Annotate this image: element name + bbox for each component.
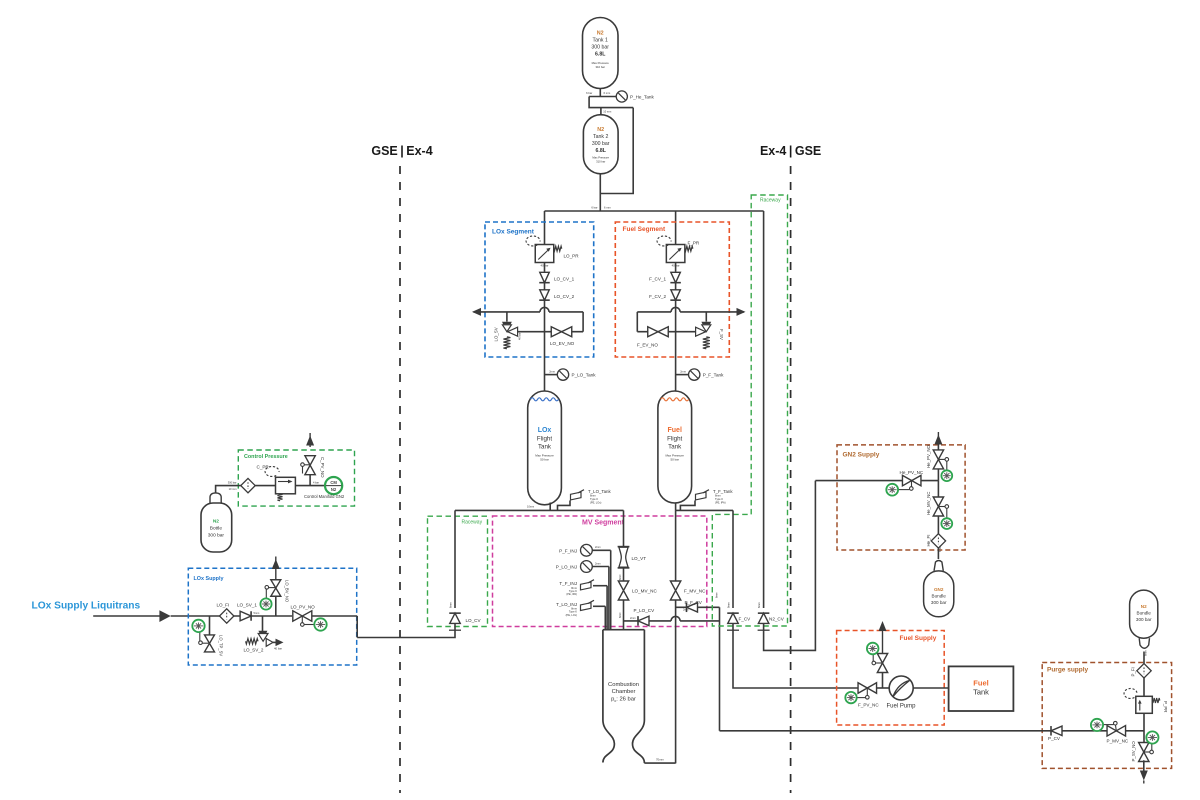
instrument ring He_PV_NO	[941, 470, 952, 481]
wire LOx tank outlet	[549, 503, 551, 511]
svg-text:LO_SV_1: LO_SV_1	[237, 603, 257, 608]
svg-text:F_CV: F_CV	[739, 617, 752, 622]
wire P_SV_NO to vent	[1143, 760, 1145, 772]
svg-text:LO_CV: LO_CV	[466, 618, 482, 623]
thermocouple T_LO_INJ	[593, 605, 605, 607]
svg-text:He_PV_NO: He_PV_NO	[926, 444, 931, 468]
svg-text:Raceway: Raceway	[462, 520, 483, 526]
svg-text:6mm: 6mm	[715, 592, 718, 598]
svg-text:P_MV_NC: P_MV_NC	[1107, 739, 1129, 744]
instrument ring P_MV_NC	[1091, 719, 1103, 731]
instrument ring drain valve	[192, 620, 204, 632]
svg-text:2mm: 2mm	[595, 562, 601, 565]
wire Fuel tank outlet	[675, 503, 677, 510]
check valve P_CV	[1051, 726, 1062, 736]
wire LO_CV riser bottom	[357, 624, 455, 638]
supply inlet arrow	[159, 610, 170, 622]
svg-text:300 bar: 300 bar	[1136, 617, 1152, 622]
instrument ring He_PV_NC	[886, 484, 898, 496]
svg-text:Type K: Type K	[715, 497, 723, 501]
N2 Tank 1	[583, 18, 619, 89]
svg-text:pc: 26 bar: pc: 26 bar	[611, 696, 636, 702]
LOx vent header wire	[474, 311, 541, 313]
vent arrow LOx left	[472, 308, 481, 316]
svg-text:6 mm: 6 mm	[604, 91, 611, 95]
svg-text:Tank: Tank	[538, 444, 552, 451]
svg-text:Flight: Flight	[537, 435, 552, 442]
wire vent down-leg right	[582, 312, 584, 332]
wire pump to fuel tank	[913, 687, 948, 689]
LO_PV_NO actuator	[301, 616, 303, 623]
wire LO to tank top	[544, 370, 546, 391]
GSE/Ex-4 boundary line left	[399, 166, 401, 793]
svg-text:P_LO_INJ: P_LO_INJ	[556, 565, 577, 570]
check valve F_CV_1	[671, 272, 681, 282]
pressure gauge P_He_Tank	[616, 91, 627, 102]
svg-text:F_PR: F_PR	[688, 241, 700, 246]
svg-text:P_PR: P_PR	[1163, 701, 1168, 712]
valve F_PV_NC	[858, 683, 877, 694]
valve F_EV_NO	[648, 327, 669, 337]
Control Pressure box	[238, 450, 354, 506]
filter control	[241, 478, 255, 492]
wire He to filter	[937, 516, 939, 534]
svg-text:LOx Supply Liquitrans: LOx Supply Liquitrans	[32, 601, 141, 612]
wire manifold down-jog	[589, 97, 633, 108]
LOx supply outlet wire	[312, 615, 357, 617]
wire LO_CV riser top	[454, 510, 456, 608]
svg-text:6mm: 6mm	[757, 602, 761, 608]
GN2 Supply box	[837, 445, 965, 550]
pressure gauge P_F_INJ	[592, 549, 611, 551]
svg-text:T_LO_INJ: T_LO_INJ	[556, 602, 577, 607]
wire fuel fill drop	[732, 510, 734, 608]
wire LOx branch drop	[544, 211, 546, 245]
svg-text:8mm: 8mm	[590, 494, 596, 498]
instrument ring He_MV_NC	[941, 518, 952, 529]
valve He_MV_NC	[933, 497, 943, 516]
LOx Segment box	[485, 222, 594, 357]
svg-text:(PE, IPA): (PE, IPA)	[715, 500, 726, 504]
svg-text:LOx Segment: LOx Segment	[492, 229, 535, 236]
filter LO_FI	[220, 609, 234, 623]
wire fuel relief sub-header	[637, 331, 706, 333]
vent arrow Fuel right	[737, 308, 746, 316]
svg-text:F_EV_NO: F_EV_NO	[637, 343, 658, 348]
valve LO_PV_NO	[293, 611, 312, 622]
wire LO main down through crossover	[544, 301, 546, 371]
svg-text:LO_SV: LO_SV	[494, 327, 499, 341]
thermocouple T_F_INJ	[593, 585, 607, 587]
wire He header	[815, 480, 938, 482]
svg-text:Purge supply: Purge supply	[1047, 667, 1089, 674]
svg-text:2mm: 2mm	[549, 369, 555, 373]
Ex-4/GSE boundary line right	[790, 166, 792, 793]
svg-text:6mm: 6mm	[619, 612, 622, 618]
svg-text:10mm: 10mm	[527, 505, 534, 509]
N2 Tank 2	[583, 115, 618, 174]
wire Fuel branch drop	[675, 211, 677, 245]
check valve P_LO_CV with hump over fuel line	[624, 620, 672, 622]
control vent riser	[309, 474, 311, 486]
regulator P_PR	[1136, 696, 1153, 713]
svg-text:P_He_Tank: P_He_Tank	[630, 94, 654, 99]
svg-text:N2: N2	[331, 487, 337, 492]
svg-text:2mm: 2mm	[680, 369, 686, 373]
check valve LO_CV	[450, 613, 461, 623]
svg-text:2mm: 2mm	[630, 617, 636, 620]
N2 Bundle bottle right	[1130, 590, 1158, 638]
svg-text:LOx Supply: LOx Supply	[194, 576, 224, 582]
svg-text:P_F_INJ: P_F_INJ	[559, 548, 577, 553]
wire F main down through crossover	[675, 301, 677, 371]
wire pressurization bus	[545, 210, 764, 212]
vent arrow fuel supply	[879, 621, 887, 631]
check valve F_CV_2	[671, 290, 681, 300]
wire venturi to LO_MV_NC	[623, 568, 625, 581]
svg-text:Flight: Flight	[667, 435, 682, 442]
svg-text:310 bar: 310 bar	[596, 160, 605, 164]
svg-text:Fuel: Fuel	[973, 679, 988, 688]
wire tank2 bypass right	[600, 108, 633, 194]
wire tank1 manifold	[589, 96, 616, 98]
wire LOx feed drop	[623, 510, 625, 546]
svg-text:70mm: 70mm	[656, 758, 664, 762]
relief valve LO_SV	[506, 312, 508, 322]
wire fuel fill to supply	[733, 624, 858, 689]
svg-text:50 bar: 50 bar	[540, 458, 549, 462]
wire tank1 outlet	[599, 88, 601, 96]
svg-text:LOx: LOx	[538, 427, 552, 434]
svg-text:GN2 Supply: GN2 Supply	[843, 452, 880, 459]
pressure gauge P_F_Tank	[689, 369, 700, 380]
vent valve C_PV_NO	[305, 456, 315, 475]
svg-text:Raceway: Raceway	[760, 198, 781, 204]
regulator LO_PR	[535, 245, 554, 263]
svg-text:Bundle: Bundle	[1137, 611, 1152, 616]
svg-text:6.8L: 6.8L	[596, 148, 607, 154]
wire bottle to filter	[1143, 652, 1145, 664]
drain branch valve	[209, 616, 211, 635]
svg-text:LO_EV_NO: LO_EV_NO	[550, 341, 575, 346]
wire to P_LO_Tank gauge	[545, 374, 558, 376]
svg-text:Tank 1: Tank 1	[593, 38, 608, 44]
check valve F_CV	[728, 613, 739, 623]
svg-text:Max Pressure: Max Pressure	[592, 156, 609, 160]
svg-text:Control Manifold GN2: Control Manifold GN2	[304, 494, 345, 499]
valve F_MV_NC	[675, 510, 677, 581]
valve He_PV_NC	[902, 475, 921, 486]
svg-text:6 mm: 6 mm	[604, 206, 611, 210]
svg-text:LO_FI: LO_FI	[217, 603, 230, 608]
svg-text:300 bar: 300 bar	[931, 600, 947, 605]
wire F_PV_NC to pump	[877, 687, 890, 689]
svg-text:N2: N2	[1141, 604, 1147, 609]
svg-text:6.8L: 6.8L	[595, 52, 606, 58]
wire bottle to filter	[216, 486, 241, 493]
check valve LO_CV_2	[540, 290, 550, 300]
vent arrow LOx supply	[272, 559, 280, 569]
svg-text:LO_SV_2: LO_SV_2	[244, 648, 264, 653]
svg-text:F_MV_NC: F_MV_NC	[684, 589, 706, 594]
svg-text:T_F_Tank: T_F_Tank	[713, 489, 733, 494]
Raceway box left	[428, 516, 488, 626]
thermocouple T_F_Tank	[680, 501, 695, 511]
svg-text:300 bar: 300 bar	[591, 45, 609, 51]
regulator F_PR	[666, 245, 685, 263]
combustion chamber	[603, 629, 645, 631]
regulator C_PR	[276, 477, 296, 494]
svg-text:T_LO_Tank: T_LO_Tank	[588, 489, 612, 494]
vent branch LO_BV_NO	[275, 596, 277, 616]
wire F_MV_NC down	[675, 600, 677, 764]
svg-text:300 bar: 300 bar	[228, 480, 237, 484]
svg-text:GN2: GN2	[934, 587, 944, 592]
instrument ring fuel vent	[867, 643, 879, 655]
svg-text:Fuel Supply: Fuel Supply	[900, 635, 937, 642]
N2 bottle control	[210, 493, 221, 503]
svg-text:6 bar: 6 bar	[591, 206, 597, 210]
valve P_MV_NC	[1107, 726, 1126, 737]
pressure gauge P_LO_Tank	[557, 369, 568, 380]
svg-text:5mm: 5mm	[254, 611, 260, 615]
wire to P_F_Tank gauge	[676, 374, 689, 376]
fuel vent actuator	[876, 662, 883, 664]
Purge supply box	[1042, 663, 1171, 769]
LOx Supply box	[188, 568, 356, 665]
wire C_PR to manifold	[295, 485, 325, 487]
wire F_CV_1 to F_CV_2	[675, 283, 677, 290]
vent arrow purge down	[1140, 771, 1148, 781]
Fuel vent header wire	[637, 311, 671, 313]
Raceway box right	[712, 195, 787, 626]
svg-text:N2: N2	[597, 127, 604, 133]
svg-text:LO_TP_SV: LO_TP_SV	[219, 635, 224, 656]
svg-text:LO_CV_1: LO_CV_1	[554, 277, 575, 282]
wire filter to C_PR	[255, 485, 275, 487]
svg-text:LO_PV_NO: LO_PV_NO	[291, 605, 316, 610]
He_MV_NC actuator	[938, 506, 945, 508]
svg-text:2mm: 2mm	[595, 546, 601, 549]
svg-text:10 mm: 10 mm	[603, 110, 611, 114]
fuel vent riser	[882, 672, 884, 689]
wire F to tank top	[675, 370, 677, 391]
wire raceway N2 drop	[763, 211, 765, 608]
svg-text:He_MV_NC: He_MV_NC	[926, 492, 931, 515]
svg-text:300 bar: 300 bar	[208, 532, 225, 538]
svg-text:P_F_CV: P_F_CV	[685, 600, 703, 605]
check valve P_F_CV	[676, 606, 720, 608]
svg-text:Combustion: Combustion	[608, 682, 639, 688]
svg-text:He_PV_NC: He_PV_NC	[900, 470, 924, 475]
wire tank2 inlet	[600, 108, 602, 115]
wire LOx tank bottom header	[455, 509, 624, 511]
svg-text:4 bar: 4 bar	[313, 480, 319, 484]
svg-text:P_SV_NO: P_SV_NO	[1131, 741, 1136, 762]
svg-text:310 bar: 310 bar	[595, 65, 605, 69]
wire He vent riser	[937, 443, 939, 481]
He_PV_NO actuator	[938, 458, 945, 460]
svg-text:6 mm: 6 mm	[938, 546, 942, 552]
svg-text:F_CV_1: F_CV_1	[649, 277, 666, 282]
thermocouple T_LO_Tank	[558, 501, 571, 511]
fuel pump	[889, 676, 913, 700]
relief valve F_SV	[705, 312, 707, 322]
relief branch LO_SV_2	[262, 616, 264, 631]
valve He_PV_NO	[933, 450, 943, 469]
valve LO_EV_NO	[551, 327, 572, 337]
LOx Flight Tank	[528, 391, 562, 505]
svg-text:T_F_INJ: T_F_INJ	[559, 581, 577, 586]
wire P_PR to junction	[1143, 713, 1145, 731]
GN2 Bundle bottle	[934, 561, 943, 571]
svg-text:Bottle: Bottle	[210, 526, 223, 532]
svg-text:Fuel Pump: Fuel Pump	[886, 704, 916, 710]
svg-text:6 bar: 6 bar	[586, 91, 592, 95]
instrument ring P_SV_NO	[1146, 731, 1158, 743]
svg-text:Tank: Tank	[668, 444, 682, 451]
LOx supply inlet wire	[93, 615, 160, 617]
svg-text:P_F_Tank: P_F_Tank	[703, 373, 724, 378]
svg-text:2mm: 2mm	[683, 609, 689, 612]
wire LO_MV_NC down to chamber	[623, 600, 625, 630]
svg-text:N2_CV: N2_CV	[769, 617, 785, 622]
wire Fuel tank bottom header	[676, 509, 733, 511]
svg-text:LO_MV_NC: LO_MV_NC	[632, 589, 657, 594]
instrument ring LO_PV_NO	[314, 618, 326, 630]
Fuel Segment box	[615, 222, 729, 357]
svg-text:8mm: 8mm	[727, 602, 731, 608]
wire purge drop fuel side	[719, 607, 721, 731]
Fuel Flight Tank	[658, 391, 692, 503]
svg-text:Tank: Tank	[973, 688, 989, 697]
valve LO_MV_NC	[618, 581, 628, 600]
wire filter to bundle	[937, 548, 939, 559]
check valve LO_CV_1	[540, 272, 550, 282]
filter He_FI	[931, 534, 945, 548]
svg-text:Fuel Segment: Fuel Segment	[623, 226, 666, 233]
svg-text:F_CV_2: F_CV_2	[649, 294, 666, 299]
svg-text:Tank 2: Tank 2	[593, 134, 608, 140]
wire LO_CV_1 to LO_CV_2	[544, 283, 546, 290]
pressure gauge P_LO_INJ	[592, 566, 609, 568]
svg-text:P_FI: P_FI	[1131, 667, 1136, 676]
vent valve fuel supply	[877, 654, 887, 673]
svg-text:LO_CV_2: LO_CV_2	[554, 294, 575, 299]
instrument ring LO_BV_NO	[260, 598, 271, 609]
svg-text:C_PR: C_PR	[257, 465, 270, 470]
wire relief sub-header	[507, 331, 583, 333]
MV Segment box	[493, 516, 707, 627]
svg-text:Bundle: Bundle	[932, 594, 947, 599]
Fuel Tank box	[949, 666, 1014, 711]
svg-text:8mm: 8mm	[715, 494, 721, 498]
check valve LO_SV_1	[240, 611, 251, 621]
svg-text:F_SV: F_SV	[719, 329, 724, 340]
svg-text:(PE, IPA): (PE, IPA)	[566, 592, 577, 596]
svg-text:F_PV_NC: F_PV_NC	[858, 703, 879, 708]
svg-text:(PE, LOx): (PE, LOx)	[590, 500, 602, 504]
svg-text:LO_PR: LO_PR	[564, 254, 580, 259]
CM N2 control manifold	[325, 477, 342, 494]
svg-text:6mm: 6mm	[1144, 650, 1148, 656]
purge header wire	[720, 730, 1145, 732]
wire fuel line to nozzle exit	[644, 762, 675, 764]
vent arrow control	[306, 436, 314, 446]
wire vent down-leg left	[636, 312, 638, 332]
wire filter to P_PR	[1143, 678, 1145, 696]
svg-text:10 mm: 10 mm	[229, 487, 237, 491]
svg-text:N2: N2	[213, 519, 219, 525]
venturi LO_VT	[618, 546, 630, 548]
wire N2 line U to GN2 supply	[764, 481, 816, 651]
svg-text:C_PV_NO: C_PV_NO	[320, 457, 325, 478]
Fuel Supply box	[837, 631, 945, 726]
vent arrow GN2 top	[937, 432, 939, 443]
wire tank2 outlet to bus	[599, 174, 601, 211]
svg-text:CM: CM	[330, 480, 337, 485]
svg-text:40 bar: 40 bar	[274, 647, 282, 651]
svg-text:50 bar: 50 bar	[670, 458, 679, 462]
svg-text:40 bar: 40 bar	[518, 333, 522, 340]
svg-text:(PE, LOx): (PE, LOx)	[566, 613, 578, 617]
svg-text:He_FI: He_FI	[926, 535, 931, 547]
wire F_PR to F_CV_1	[675, 263, 677, 272]
F_PV_NC actuator	[866, 688, 868, 695]
svg-text:LO_BV_NO: LO_BV_NO	[285, 580, 290, 603]
svg-text:Ex-4 | GSE: Ex-4 | GSE	[760, 144, 821, 158]
svg-text:Chamber: Chamber	[612, 689, 636, 695]
svg-text:P_CV: P_CV	[1048, 736, 1061, 741]
check valve N2_CV	[758, 613, 769, 623]
filter P_FI	[1137, 664, 1151, 678]
P_SV_NO actuator	[1144, 751, 1150, 753]
svg-text:Control Pressure: Control Pressure	[244, 454, 288, 460]
svg-text:6mm: 6mm	[619, 574, 622, 580]
svg-text:LO_VT: LO_VT	[632, 556, 647, 561]
svg-text:6mm: 6mm	[449, 602, 453, 608]
valve P_SV_NO	[1143, 731, 1145, 744]
svg-text:300 bar: 300 bar	[592, 141, 610, 147]
svg-text:Fuel: Fuel	[668, 427, 682, 434]
LOx supply main wire	[171, 615, 292, 617]
wire He down to valve	[937, 481, 939, 498]
LO_BV_NO actuator	[269, 587, 276, 589]
He_PV_NC actuator	[911, 481, 913, 487]
svg-text:P_LO_CV: P_LO_CV	[634, 608, 656, 613]
svg-text:GSE | Ex-4: GSE | Ex-4	[371, 144, 432, 158]
svg-text:N2: N2	[597, 31, 604, 37]
svg-text:MV Segment: MV Segment	[582, 520, 625, 527]
svg-text:Type K: Type K	[590, 497, 598, 501]
instrument ring F_PV_NC	[845, 692, 856, 703]
wire LO_PR to LO_CV_1	[544, 263, 546, 272]
P_MV_NC actuator	[1115, 725, 1118, 731]
svg-text:P_LO_Tank: P_LO_Tank	[572, 373, 597, 378]
